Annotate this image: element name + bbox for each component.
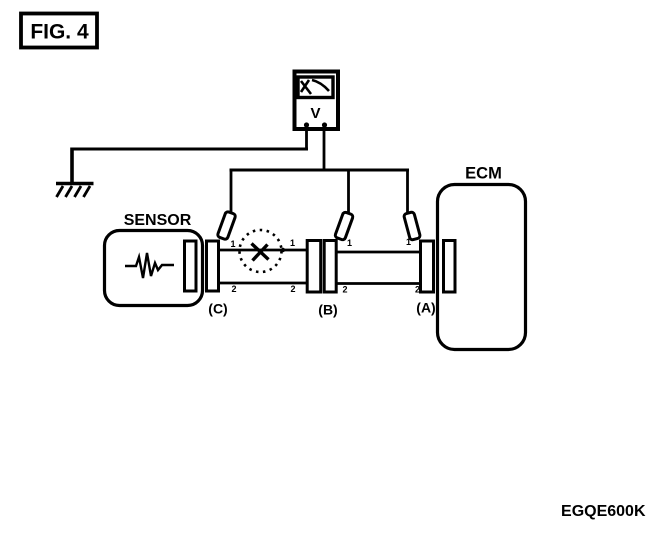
wire B to A pin 1 [336, 251, 420, 254]
svg-text:ECM: ECM [465, 165, 502, 183]
wire C to B pin 1 [219, 249, 308, 252]
wire drop to probe B [347, 169, 350, 215]
svg-text:1: 1 [290, 238, 295, 248]
wire horizontal to ground [71, 148, 309, 151]
svg-text:2: 2 [290, 284, 295, 294]
svg-text:FIG. 4: FIG. 4 [30, 21, 89, 44]
probe at connector B [334, 212, 353, 241]
probe at connector A [403, 212, 420, 241]
connector (A) [421, 241, 434, 292]
svg-text:(A): (A) [416, 300, 435, 316]
wire voltmeter left terminal to ground line [305, 126, 308, 151]
wire B to A pin 2 [336, 282, 420, 285]
svg-text:V: V [310, 105, 320, 122]
probe at connector C [217, 211, 236, 240]
connector (B) left half [307, 241, 321, 293]
wire ground riser [70, 148, 74, 184]
sensor signal waveform [125, 253, 174, 278]
svg-text:1: 1 [406, 237, 411, 247]
svg-text:(C): (C) [208, 301, 227, 317]
sensor box [105, 212, 203, 306]
wire drop to probe C [230, 169, 233, 214]
svg-text:EGQE600K: EGQE600K [561, 503, 646, 520]
svg-text:2: 2 [342, 285, 347, 295]
wire probe bus [230, 169, 410, 172]
sensor connector pin header [185, 241, 197, 291]
figure label FIG. 4 [21, 14, 97, 48]
voltmeter V [295, 72, 339, 130]
svg-text:2: 2 [231, 284, 236, 294]
wire C to B pin 2 [219, 282, 308, 285]
ground [56, 184, 94, 198]
svg-text:1: 1 [347, 238, 352, 248]
open-circuit fault mark (dashed circle with X) [240, 230, 286, 272]
wire voltmeter right terminal down to bus [323, 126, 326, 172]
ECM box [438, 165, 526, 350]
wire drop to probe A [406, 169, 409, 214]
ECM connector pin header [444, 241, 456, 293]
connector (C) [207, 241, 219, 291]
svg-text:SENSOR: SENSOR [124, 212, 192, 229]
svg-text:1: 1 [230, 239, 235, 249]
connector (B) right half [324, 241, 336, 293]
svg-text:(B): (B) [318, 302, 337, 318]
